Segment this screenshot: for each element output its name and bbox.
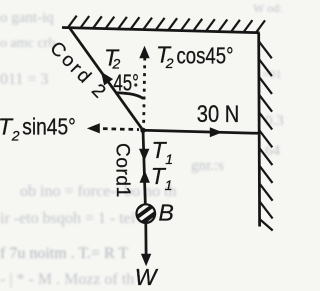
arrowhead T1 up <box>140 170 150 183</box>
faint bleed-through row C <box>0 245 128 262</box>
svg-text:011 = 3: 011 = 3 <box>0 71 48 88</box>
faint bleed-through row middle-right <box>191 113 284 174</box>
cord below block to weight arrow <box>144 223 147 255</box>
arrowhead 30 N (right) <box>210 127 223 137</box>
svg-text:64: 64 <box>265 143 281 159</box>
dotted vertical projection line <box>144 58 145 128</box>
ceiling hatching <box>68 16 266 33</box>
wall line <box>257 33 261 227</box>
faint bleed-through marks top-right <box>253 1 282 81</box>
30 N force line (to wall) <box>143 130 259 133</box>
svg-text:0.3: 0.3 <box>265 113 284 129</box>
svg-text:2: 2 <box>11 128 20 144</box>
svg-text:- | * - M . Mozz of th: - | * - M . Mozz of th <box>0 271 134 288</box>
svg-text:o amc crb: o amc crb <box>0 36 55 51</box>
angle arc <box>116 93 144 99</box>
faint bleed-through row D <box>0 271 134 288</box>
wall hatching <box>259 41 273 231</box>
svg-text:W od:: W od: <box>253 1 282 15</box>
cord 1 (vertical, junction to block) <box>143 130 145 203</box>
arrowhead T2 (on cord, pointing up-left) <box>101 72 113 86</box>
faint bleed-through text row top-left <box>0 10 55 88</box>
svg-text:2: 2 <box>165 55 174 71</box>
svg-text:ir -eto bsqoh = 1 - teiv: ir -eto bsqoh = 1 - teiv <box>0 210 143 227</box>
arrowhead T2cos45 (up) <box>139 46 149 59</box>
arrowhead T1 down <box>139 149 149 162</box>
cord 2 (diagonal) <box>70 29 143 131</box>
svg-text:30 N: 30 N <box>197 101 240 128</box>
svg-text:1: 1 <box>165 177 173 193</box>
svg-text:f 7u noitm . T.= R T: f 7u noitm . T.= R T <box>0 245 128 262</box>
block B (hatched circle) <box>136 204 155 223</box>
faint bleed-through row A <box>20 183 177 200</box>
block B hatching (white stripes) <box>133 200 160 229</box>
svg-text:1: 1 <box>112 187 134 198</box>
svg-text:gnr.:s: gnr.:s <box>191 158 224 174</box>
arrowhead W (down) <box>141 254 151 266</box>
svg-text:W: W <box>135 264 159 290</box>
faint bleed-through row B <box>0 210 143 227</box>
dashed horizontal T2sin45 line <box>103 129 139 130</box>
ceiling line <box>62 28 260 33</box>
arrowhead T2sin45 (left) <box>87 123 100 133</box>
svg-text:1: 1 <box>165 151 173 167</box>
svg-text:sin45°: sin45° <box>22 113 76 139</box>
svg-text:Cord: Cord <box>111 143 132 187</box>
svg-text:B: B <box>159 200 174 226</box>
svg-text:o gant-iq: o gant-iq <box>0 10 54 26</box>
svg-text:cos45°: cos45° <box>177 42 234 68</box>
junction node <box>140 128 145 133</box>
